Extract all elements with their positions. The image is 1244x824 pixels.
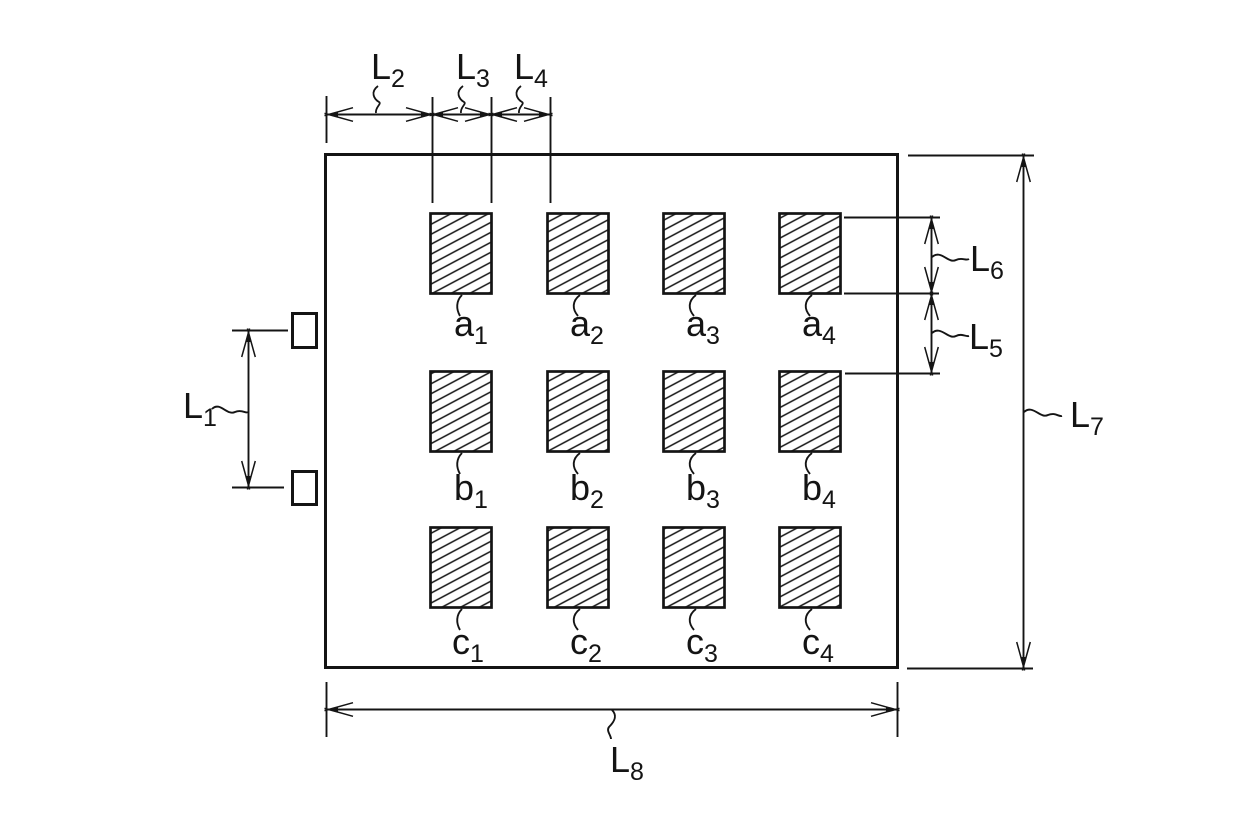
leader to label a1 <box>457 295 462 316</box>
svg-text:c3: c3 <box>686 621 718 668</box>
svg-text:a3: a3 <box>686 303 720 350</box>
leader to label c2 <box>574 609 580 630</box>
extension line at pad a2 left <box>550 97 552 203</box>
L2 leader squiggle <box>373 86 379 113</box>
L7 arrow down <box>1017 642 1031 671</box>
L7 leader squiggle <box>1024 410 1062 417</box>
L7 arrow up <box>1017 154 1031 183</box>
pad a2 (hatched rectangle) <box>548 214 609 294</box>
pad a1 (hatched rectangle) <box>431 214 492 294</box>
svg-text:L4: L4 <box>514 46 548 93</box>
svg-text:L8: L8 <box>610 739 644 786</box>
leader to label c1 <box>457 609 462 630</box>
svg-text:L1: L1 <box>183 385 217 432</box>
pad b2 (hatched rectangle) <box>548 372 609 452</box>
extension line at pad a1 left <box>432 97 434 203</box>
leader to label a3 <box>690 295 696 316</box>
L1 arrow up <box>242 329 256 358</box>
L1 arrow down <box>242 461 256 490</box>
svg-text:b1: b1 <box>454 467 488 514</box>
L1 leader squiggle <box>212 407 248 413</box>
svg-text:L6: L6 <box>970 238 1004 285</box>
svg-text:L5: L5 <box>969 316 1003 363</box>
L8 arrow right <box>871 703 900 717</box>
extension line at pad a4 top <box>844 217 940 219</box>
L2 dimension line <box>327 114 432 116</box>
svg-text:b3: b3 <box>686 467 720 514</box>
leader to label b1 <box>457 453 462 474</box>
leader to label c3 <box>690 609 696 630</box>
L8 tick left <box>326 682 328 737</box>
L2 arrow right <box>406 108 435 122</box>
L3 arrow left <box>430 108 459 122</box>
pad a3 (hatched rectangle) <box>664 214 725 294</box>
extension line at pad a4 bottom <box>844 293 939 295</box>
leader to label a2 <box>574 295 580 316</box>
svg-text:L7: L7 <box>1070 394 1104 441</box>
svg-text:L3: L3 <box>456 46 490 93</box>
leader to label a4 <box>806 295 812 316</box>
L8 leader squiggle <box>608 710 615 739</box>
L5 arrow up <box>925 292 939 321</box>
substrate outline (main rectangle) <box>326 155 898 668</box>
L8 arrow left <box>325 703 354 717</box>
left terminal square (bottom) <box>293 472 317 505</box>
L4 arrow right <box>524 108 553 122</box>
L5 arrow down <box>925 347 939 376</box>
leader to label b4 <box>806 453 812 474</box>
L6 arrow up <box>925 216 939 245</box>
pad c3 (hatched rectangle) <box>664 528 725 608</box>
L6 arrow down <box>925 267 939 296</box>
L4 leader squiggle <box>516 86 522 113</box>
svg-text:a4: a4 <box>802 303 836 350</box>
svg-text:c2: c2 <box>570 621 602 668</box>
L5 dimension line <box>931 294 933 373</box>
extension line at pad a1 right <box>491 97 493 203</box>
L6 leader squiggle <box>932 255 969 261</box>
svg-text:c1: c1 <box>452 621 484 668</box>
L3 dimension line <box>432 114 491 116</box>
L6 dimension line <box>931 218 933 293</box>
L7 extension line bottom <box>907 668 1033 670</box>
L7 extension line top <box>908 155 1034 157</box>
L8 tick right <box>897 682 899 737</box>
pad c2 (hatched rectangle) <box>548 528 609 608</box>
L4 arrow left <box>489 108 518 122</box>
leader to label b3 <box>690 453 696 474</box>
left terminal square (top) <box>293 314 317 348</box>
pad a4 (hatched rectangle) <box>780 214 841 294</box>
L1 extension line top <box>232 330 288 332</box>
pad b4 (hatched rectangle) <box>780 372 841 452</box>
svg-text:L2: L2 <box>371 46 405 93</box>
L3 arrow right <box>465 108 494 122</box>
leader to label c4 <box>806 609 812 630</box>
leader to label b2 <box>574 453 580 474</box>
L2 arrow left <box>325 108 354 122</box>
L7 dimension line <box>1023 156 1025 668</box>
pad b3 (hatched rectangle) <box>664 372 725 452</box>
pad b1 (hatched rectangle) <box>431 372 492 452</box>
svg-text:c4: c4 <box>802 621 834 668</box>
extension line at pad b4 top <box>845 373 940 375</box>
pad c1 (hatched rectangle) <box>431 528 492 608</box>
L8 dimension line <box>327 709 897 711</box>
L2 tick at box left <box>326 96 328 143</box>
svg-text:b2: b2 <box>570 467 604 514</box>
L4 dimension line <box>491 114 550 116</box>
L1 extension line bottom <box>232 487 284 489</box>
L5 leader squiggle <box>932 331 969 337</box>
svg-text:a2: a2 <box>570 303 604 350</box>
svg-text:b4: b4 <box>802 467 836 514</box>
svg-text:a1: a1 <box>454 303 488 350</box>
L1 dimension line <box>248 331 250 487</box>
pad c4 (hatched rectangle) <box>780 528 841 608</box>
L3 leader squiggle <box>458 86 464 113</box>
